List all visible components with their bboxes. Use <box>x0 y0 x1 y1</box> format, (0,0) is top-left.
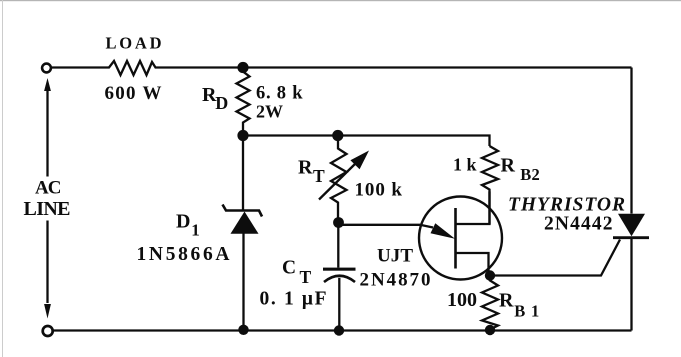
svg-text:100: 100 <box>447 289 477 311</box>
svg-text:0. 1 μF: 0. 1 μF <box>260 289 327 310</box>
svg-text:D: D <box>176 211 190 233</box>
svg-text:T: T <box>300 267 312 287</box>
svg-text:2N4442: 2N4442 <box>544 214 613 235</box>
svg-text:6. 8 k: 6. 8 k <box>256 84 303 104</box>
svg-text:R: R <box>298 157 313 179</box>
svg-text:B: B <box>514 302 525 321</box>
svg-text:R: R <box>499 290 514 312</box>
svg-text:C: C <box>282 258 296 279</box>
svg-text:B: B <box>520 165 531 184</box>
svg-text:1N5866A: 1N5866A <box>137 244 230 265</box>
svg-text:1: 1 <box>191 221 200 240</box>
svg-text:D: D <box>215 93 228 113</box>
svg-text:2N4870: 2N4870 <box>360 270 431 291</box>
svg-text:T: T <box>313 166 325 186</box>
svg-text:UJT: UJT <box>377 246 413 267</box>
svg-text:2W: 2W <box>256 102 283 122</box>
svg-text:100 k: 100 k <box>355 180 403 201</box>
svg-text:AC: AC <box>35 178 62 199</box>
svg-text:1: 1 <box>531 302 539 321</box>
svg-text:R: R <box>501 155 516 177</box>
svg-text:2: 2 <box>532 165 540 184</box>
svg-text:LOAD: LOAD <box>106 34 162 53</box>
svg-text:600 W: 600 W <box>105 83 162 104</box>
svg-text:LINE: LINE <box>24 198 71 220</box>
svg-text:THYRISTOR: THYRISTOR <box>508 195 625 216</box>
svg-text:1 k: 1 k <box>453 155 477 175</box>
